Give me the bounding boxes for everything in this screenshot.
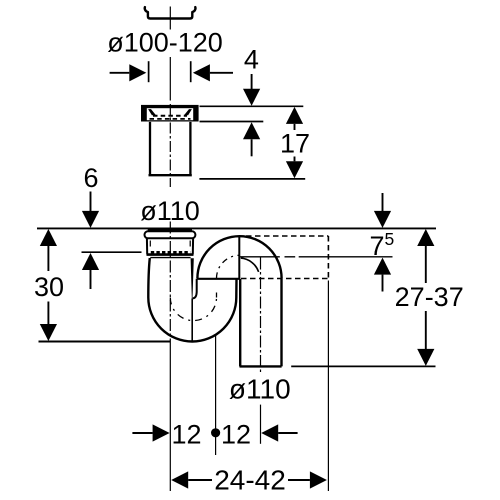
- ceramic outlet collar symbol: [145, 7, 196, 18]
- dimension 27-37 arrow up: [417, 229, 434, 246]
- dimension 12 left arrow: [132, 432, 152, 434]
- svg-text:12: 12: [221, 420, 251, 450]
- left elbow centerline arc: [217, 255, 240, 278]
- dimension 12 right arrow: [261, 424, 278, 441]
- dimension 27-37 arrow down: [425, 311, 427, 349]
- extension tick left: [148, 61, 150, 82]
- trap socket bottom edge: [147, 253, 194, 256]
- top bend vertical weld seam: [238, 236, 240, 278]
- trap socket rim: [145, 231, 196, 238]
- extension line right (alternate outlet end): [327, 281, 329, 492]
- dimension 6 arrow down: [90, 192, 92, 212]
- dimension 7.5 arrow down: [382, 193, 384, 211]
- dimension 30 arrow down: [47, 302, 49, 325]
- svg-text:4: 4: [244, 44, 259, 74]
- svg-text:12: 12: [171, 420, 201, 450]
- dimension ø100-120 right arrow: [193, 64, 210, 81]
- svg-text:6: 6: [83, 163, 98, 193]
- trap socket grip ring band: [151, 251, 190, 254]
- inlet centerline extension to bottom dims: [169, 345, 171, 491]
- riser centerline: [216, 278, 218, 297]
- extension line 6 bottom: [82, 251, 142, 253]
- sleeve flange (rubber collar cross-section): [141, 105, 199, 122]
- dimension 7.5 arrow up: [374, 258, 391, 275]
- extension line trap mid axis: [215, 334, 217, 455]
- dimension 6 arrow up: [82, 253, 99, 270]
- flange hidden line row 1: [153, 115, 187, 117]
- alternate position hidden outline bottom: [241, 278, 328, 280]
- flange hidden line row 2: [150, 118, 191, 120]
- sleeve pipe: [149, 122, 192, 175]
- reference line socket top: [37, 227, 436, 229]
- outlet pipe centerline: [260, 258, 262, 375]
- svg-text:24-42: 24-42: [214, 465, 286, 496]
- U-bend weld seam: [191, 299, 193, 342]
- alternate position hidden outline right: [327, 236, 329, 279]
- dimension 30 arrow up: [40, 229, 57, 246]
- extension line flange bottom level: [200, 121, 264, 123]
- dimension 4 arrow down: [251, 74, 253, 89]
- inlet centerline: [169, 222, 171, 346]
- svg-text:7: 7: [370, 231, 385, 261]
- dimension 17 arrow down: [294, 157, 296, 162]
- alternate position hidden outline top: [246, 235, 328, 237]
- outlet centerline tick: [260, 405, 262, 444]
- flange right wedge: [184, 109, 192, 115]
- trap socket inner dashes: [150, 241, 190, 247]
- U-bend centerline arc: [170, 298, 216, 321]
- collar symbol centerline: [169, 7, 171, 30]
- dimension 4 arrow up: [243, 122, 260, 139]
- extension line flange top level: [200, 105, 304, 107]
- svg-text:27-37: 27-37: [395, 282, 464, 312]
- outlet pipe: [240, 278, 281, 366]
- trap socket body: [147, 238, 193, 254]
- trap socket transition: [150, 257, 190, 259]
- dimension 24-42 left arrow: [171, 471, 188, 488]
- extension tick right: [190, 61, 192, 82]
- extension line sleeve pipe bottom level: [199, 178, 305, 180]
- dimension ø100-120 left arrow: [110, 72, 130, 74]
- reference line outlet bottom: [291, 365, 435, 367]
- svg-text:5: 5: [385, 229, 395, 249]
- trap inlet pipe right edge cusp: [191, 258, 194, 298]
- dimension 17 arrow up: [286, 107, 303, 124]
- centerline between text and flange: [169, 57, 171, 101]
- svg-text:17: 17: [280, 128, 310, 158]
- flange left wedge: [148, 109, 156, 115]
- trap inlet pipe left / U-bend outer contour: [148, 258, 236, 342]
- svg-text:ø100-120: ø100-120: [107, 28, 223, 58]
- outlet horizontal centerline / 7.5 extension: [240, 256, 393, 258]
- flange funnel white interior: [147, 108, 193, 120]
- dimension 24-42 right arrow: [288, 479, 310, 481]
- outlet pipe bottom edge: [240, 365, 282, 367]
- top bend horizontal weld seam: [197, 278, 241, 280]
- reference line trap bottom: [39, 341, 171, 343]
- svg-text:ø110: ø110: [229, 373, 291, 404]
- common point dot: [211, 428, 220, 437]
- top bend outer arc: [197, 236, 281, 278]
- sleeve pipe centerline: [169, 104, 171, 187]
- elbow inner fillet arc: [241, 258, 259, 272]
- trap socket rim lip: [148, 229, 192, 231]
- riser left wall: [193, 279, 197, 299]
- svg-text:30: 30: [34, 272, 64, 302]
